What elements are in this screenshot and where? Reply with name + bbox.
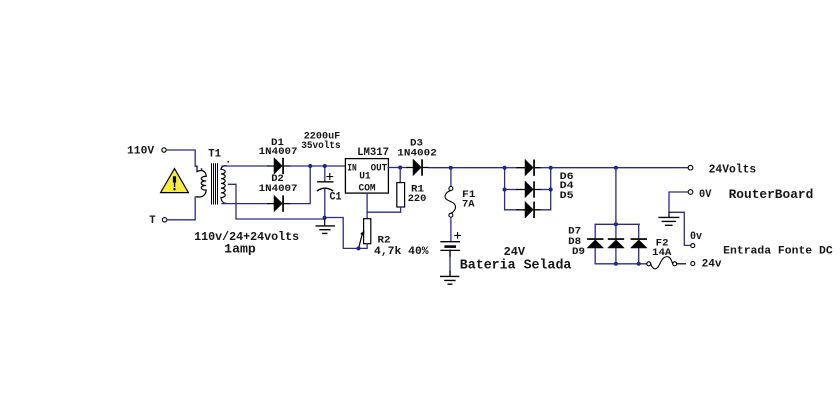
junction dot bank right middle <box>549 188 553 192</box>
op-amp regulator U1 LM317 box <box>345 159 388 194</box>
junction dot C1 top <box>323 164 327 168</box>
junction dot D9 bottom <box>637 262 641 266</box>
diode bank right rail <box>541 168 551 210</box>
ground under C1 <box>324 219 326 226</box>
svg-text:1N4007: 1N4007 <box>259 146 298 158</box>
wire D3 cathode to diode bank <box>429 167 505 169</box>
resistor R1 lead top <box>399 168 401 183</box>
transformer T1 core <box>212 164 218 204</box>
svg-text:T1: T1 <box>208 149 221 161</box>
junction dot ground rail at C1 <box>323 216 327 220</box>
wire OUT pin to junction <box>388 167 400 169</box>
junction dot D2 riser <box>308 164 312 168</box>
diode bank left rail <box>505 168 517 210</box>
svg-text:24V: 24V <box>504 246 526 259</box>
wire COM pin <box>366 193 368 212</box>
svg-text:OUT: OUT <box>371 163 388 175</box>
diode D9 <box>638 224 640 263</box>
wire R1 bottom to COM <box>367 207 401 212</box>
diode D4 <box>517 189 541 191</box>
svg-text:220: 220 <box>408 193 427 205</box>
wire transformer center tap to ground rail <box>229 184 325 219</box>
wire bank middle row right <box>541 189 551 191</box>
potentiometer R2 wiper arrow <box>359 235 362 248</box>
svg-text:0v: 0v <box>690 231 702 243</box>
wire battery to ground <box>449 250 451 276</box>
svg-text:1amp: 1amp <box>224 243 256 257</box>
main rail to 24Volts terminal <box>551 167 688 169</box>
wire R2 bottom <box>359 244 368 249</box>
wire F1 to battery <box>450 217 452 241</box>
terminal 110V <box>162 148 166 152</box>
wire riser to D7 bank <box>615 168 617 225</box>
wire 0V to ground <box>669 192 691 245</box>
terminal 24v <box>691 262 695 266</box>
transformer T1 secondary coil <box>221 166 226 204</box>
svg-text:35volts: 35volts <box>301 140 341 152</box>
terminal T <box>162 218 166 222</box>
wire 110V to transformer primary top <box>167 150 197 166</box>
svg-text:14A: 14A <box>652 247 672 259</box>
terminal 0v <box>691 244 695 248</box>
svg-text:1N4007: 1N4007 <box>259 183 298 195</box>
wire ground rail to R2 <box>325 218 359 249</box>
ground right <box>668 212 670 217</box>
junction dot bank right top <box>549 166 553 170</box>
phase dot primary <box>201 168 203 170</box>
svg-text:R2: R2 <box>378 234 391 246</box>
warning triangle <box>161 169 189 193</box>
svg-text:T: T <box>149 215 156 227</box>
junction dot bank left middle <box>503 188 507 192</box>
wire bank top row right <box>541 167 551 169</box>
diode D6 <box>517 167 541 169</box>
capacitor C1 <box>318 181 333 183</box>
junction dot OUT <box>398 166 402 170</box>
terminal 0V RouterBoard <box>688 190 693 195</box>
fuse F1 <box>449 187 453 191</box>
diode D7 <box>594 224 596 263</box>
fuse F2 <box>647 262 651 266</box>
D7 bank top rail <box>595 223 639 225</box>
capacitor C1 lead bottom <box>324 190 326 218</box>
wire bank middle row left <box>505 189 517 191</box>
resistor R1 <box>397 183 405 207</box>
svg-text:IN: IN <box>347 163 357 175</box>
ground under battery <box>441 276 459 284</box>
potentiometer R2 <box>364 219 371 244</box>
junction dot D8 bottom <box>614 262 618 266</box>
wire secondary top to D1 <box>222 165 268 167</box>
diode D8 <box>615 224 617 263</box>
transformer T1 primary coil <box>197 166 206 197</box>
svg-text:U1: U1 <box>359 171 370 183</box>
junction dot riser <box>614 166 618 170</box>
wire bank top row left <box>505 167 517 169</box>
svg-text:7A: 7A <box>462 198 475 210</box>
svg-text:1N4002: 1N4002 <box>397 148 437 160</box>
wire F1 tap down <box>450 168 452 187</box>
wire secondary bottom to D2 <box>222 203 268 205</box>
diode D1 1N4007 <box>268 165 290 167</box>
svg-text:4,7k 40%: 4,7k 40% <box>374 246 429 258</box>
junction dot R2 wiper <box>357 246 361 250</box>
wire D2 cathode riser to top rail <box>290 166 310 204</box>
diode D3 1N4002 <box>407 167 429 169</box>
terminal 24Volts <box>688 165 693 170</box>
svg-text:24Volts: 24Volts <box>709 163 757 176</box>
svg-text:24v: 24v <box>702 259 722 271</box>
svg-text:Entrada Fonte DC: Entrada Fonte DC <box>723 246 833 258</box>
svg-text:LM317: LM317 <box>357 147 389 159</box>
svg-text:D5: D5 <box>560 190 574 202</box>
wire D1 cathode to LM317 IN <box>290 165 345 167</box>
svg-text:D9: D9 <box>572 246 585 258</box>
junction dot D8 top <box>614 222 618 226</box>
svg-text:RouterBoard: RouterBoard <box>729 188 814 202</box>
wire F2 to 24v terminal <box>677 263 686 265</box>
potentiometer R2 lead top <box>366 212 368 219</box>
svg-text:110V: 110V <box>127 146 155 158</box>
battery Bateria Selada <box>441 241 459 243</box>
junction dot bank left top <box>503 166 507 170</box>
D7 bank bottom rail <box>595 263 646 265</box>
phase dot secondary <box>228 161 230 163</box>
svg-text:0V: 0V <box>699 189 712 201</box>
wire T to transformer primary bottom <box>167 197 197 220</box>
capacitor C1 lead top <box>324 166 326 181</box>
svg-text:Bateria Selada: Bateria Selada <box>460 258 572 273</box>
diode D5 <box>517 209 541 211</box>
junction dot F1 tap <box>449 166 453 170</box>
diode D2 1N4007 <box>268 203 290 205</box>
svg-text:C1: C1 <box>330 191 342 203</box>
wire junction to D3 <box>400 167 407 169</box>
